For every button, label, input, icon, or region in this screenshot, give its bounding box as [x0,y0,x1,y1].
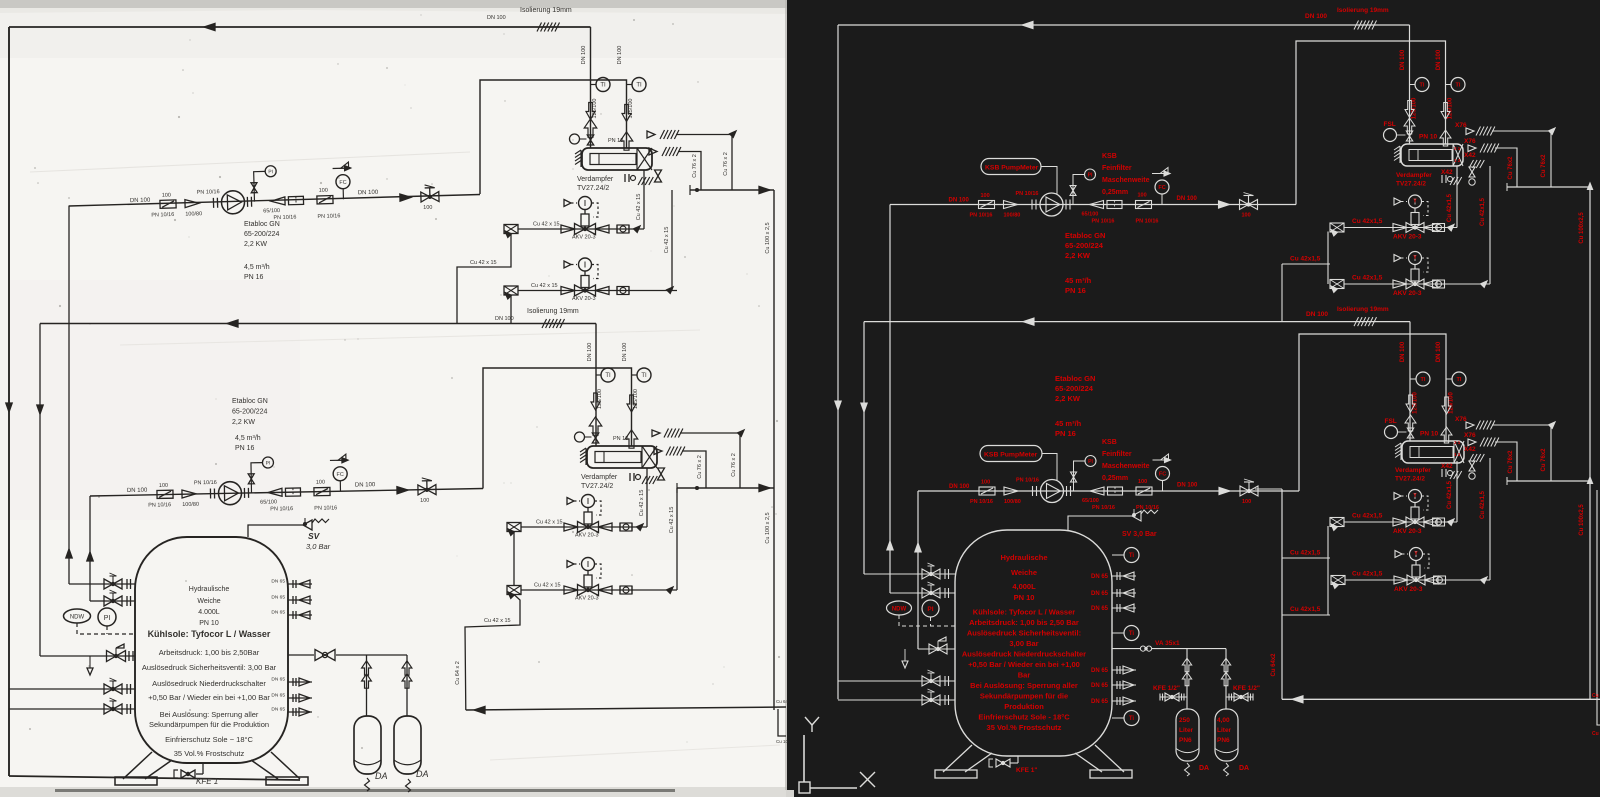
svg-text:Ti: Ti [1129,631,1135,637]
svg-text:Einfrierschutz Sole − 18°C: Einfrierschutz Sole − 18°C [165,735,253,744]
svg-text:45 m³/h: 45 m³/h [1055,419,1082,428]
svg-text:+0,50 Bar / Wieder ein bei +1,: +0,50 Bar / Wieder ein bei +1,00 Bar [148,693,270,702]
svg-text:100: 100 [1138,193,1147,199]
svg-text:Sekundärpumpen für die: Sekundärpumpen für die [980,692,1068,701]
svg-text:DA: DA [375,771,388,781]
svg-text:Cu 42 x 15: Cu 42 x 15 [531,283,558,289]
svg-text:0,25mm: 0,25mm [1102,475,1128,482]
svg-text:100/80: 100/80 [1004,499,1021,505]
svg-text:Verdampfer: Verdampfer [581,474,618,481]
svg-text:DN 100: DN 100 [355,482,376,488]
svg-text:4.000L: 4.000L [198,609,220,616]
svg-text:Ti: Ti [1129,553,1135,559]
svg-text:KFE 1": KFE 1" [196,777,222,786]
svg-text:100: 100 [319,188,328,194]
svg-text:X42: X42 [1441,463,1453,470]
svg-text:Cu 42x1,5: Cu 42x1,5 [1480,490,1486,519]
svg-text:Weiche: Weiche [197,598,220,605]
svg-text:Cu 76 x 2: Cu 76 x 2 [697,455,703,479]
svg-text:2,2 KW: 2,2 KW [232,419,255,426]
svg-text:DN 65: DN 65 [271,677,285,683]
svg-text:X76: X76 [1455,122,1467,129]
svg-text:TV27.24/2: TV27.24/2 [1396,181,1426,188]
svg-text:Cu 42 x 15: Cu 42 x 15 [639,490,645,517]
svg-text:Cu 42 x 15: Cu 42 x 15 [669,507,675,534]
svg-text:PN6: PN6 [1179,737,1192,744]
svg-text:DN 65: DN 65 [271,595,285,601]
svg-text:Bei Auslösung: Sperrung aller: Bei Auslösung: Sperrung aller [970,681,1078,690]
svg-text:35 Vol.% Frostschutz: 35 Vol.% Frostschutz [174,749,245,758]
svg-text:Cu 42 x 15: Cu 42 x 15 [484,618,511,624]
svg-text:Cu 76x2: Cu 76x2 [1541,154,1547,178]
svg-text:FSL: FSL [1384,121,1396,128]
svg-text:FC: FC [336,472,343,478]
svg-text:KSB PumpMeter: KSB PumpMeter [984,452,1038,459]
svg-text:AKV 20-3: AKV 20-3 [1394,586,1423,593]
svg-text:AKV 20-3: AKV 20-3 [572,235,596,241]
svg-text:PI: PI [104,615,111,622]
svg-text:Cu 42 x 15: Cu 42 x 15 [636,194,642,221]
svg-text:Cu 42 x 15: Cu 42 x 15 [534,583,561,589]
svg-text:Isolierung 19mm: Isolierung 19mm [1337,306,1389,313]
svg-text:PN 10/16: PN 10/16 [970,499,993,505]
svg-text:PI: PI [1088,459,1093,465]
svg-text:65/100: 65/100 [1082,498,1099,504]
svg-text:Cu 42 x 15: Cu 42 x 15 [533,222,560,228]
svg-text:125/100: 125/100 [1412,97,1418,119]
svg-text:DN 100: DN 100 [949,198,970,204]
svg-text:100: 100 [981,193,990,199]
svg-text:125/100: 125/100 [628,99,634,119]
svg-text:PN 10: PN 10 [1420,431,1438,438]
svg-text:Produktion: Produktion [1004,702,1044,711]
svg-text:Bar: Bar [1018,671,1031,680]
svg-text:Cu 100x2,5: Cu 100x2,5 [1579,504,1585,536]
svg-text:PN 10/16: PN 10/16 [970,213,993,219]
svg-text:TI: TI [605,373,611,379]
svg-text:KSB: KSB [1102,439,1117,446]
svg-text:Weiche: Weiche [1011,568,1037,577]
svg-text:+0,50 Bar / Wieder ein bei +1,: +0,50 Bar / Wieder ein bei +1,00 [968,660,1080,669]
svg-text:4,5 m³/h: 4,5 m³/h [244,264,270,271]
svg-text:NDW: NDW [892,607,907,613]
svg-text:AKV 20-3: AKV 20-3 [1393,528,1422,535]
svg-text:DA: DA [1239,765,1249,772]
svg-text:DN 100: DN 100 [1305,13,1327,20]
svg-text:PI: PI [266,460,271,466]
svg-text:Etabloc GN: Etabloc GN [244,221,280,228]
svg-text:DN 65: DN 65 [1091,606,1109,612]
svg-text:3,0 Bar: 3,0 Bar [306,542,331,551]
svg-text:TI: TI [1421,377,1426,383]
svg-text:Cu 100x2,5: Cu 100x2,5 [1579,212,1585,244]
svg-text:PN 10: PN 10 [1014,593,1035,602]
svg-text:2,2 KW: 2,2 KW [244,241,267,248]
svg-text:65-200/224: 65-200/224 [232,409,268,416]
svg-text:FC: FC [339,180,347,186]
svg-text:AKV 20-3: AKV 20-3 [1393,234,1422,241]
svg-text:PN 10/16: PN 10/16 [1092,219,1115,225]
svg-text:AKV 20-3: AKV 20-3 [575,596,599,602]
svg-text:AKV 20-3: AKV 20-3 [1393,290,1422,297]
svg-text:X42: X42 [1464,152,1476,159]
svg-text:DN 100: DN 100 [1177,196,1198,202]
svg-text:Etabloc GN: Etabloc GN [232,398,268,405]
svg-text:1 2: 1 2 [1454,452,1461,457]
svg-text:100: 100 [981,480,990,486]
svg-text:TI: TI [636,83,642,89]
svg-text:PN 10/16: PN 10/16 [270,506,293,512]
svg-text:Cu 42x1,5: Cu 42x1,5 [1447,480,1453,509]
svg-text:65/100: 65/100 [260,499,277,505]
svg-text:Cu 42x1,5: Cu 42x1,5 [1352,218,1383,225]
svg-text:2,2 KW: 2,2 KW [1055,394,1081,403]
svg-text:X42: X42 [1441,169,1453,176]
svg-text:Arbeitsdruck: 1,00 bis 2,50Bar: Arbeitsdruck: 1,00 bis 2,50Bar [159,648,260,657]
svg-text:Cu 76 x 2: Cu 76 x 2 [731,453,737,477]
svg-text:100/80: 100/80 [182,502,199,508]
svg-text:Kühlsole: Tyfocor L / Wasser: Kühlsole: Tyfocor L / Wasser [973,608,1075,617]
svg-text:FSL: FSL [1385,418,1397,425]
svg-text:TI: TI [1456,83,1461,89]
svg-text:Cu 76 x 2: Cu 76 x 2 [692,154,698,178]
svg-text:PN 10: PN 10 [1419,134,1437,141]
svg-text:Cu 42 x 15: Cu 42 x 15 [536,520,563,526]
svg-text:Y: Y [1413,493,1417,499]
svg-text:3,00 Bar: 3,00 Bar [1009,639,1038,648]
svg-text:Cu 76x2: Cu 76x2 [1508,156,1514,180]
svg-text:X76: X76 [1455,416,1467,423]
svg-text:100: 100 [316,480,325,486]
svg-text:Einfrierschutz Sole - 18°C: Einfrierschutz Sole - 18°C [978,713,1070,722]
svg-text:Cu 42x1,5: Cu 42x1,5 [1352,571,1383,578]
svg-text:SV 3,0 Bar: SV 3,0 Bar [1122,531,1157,538]
svg-text:DN 100: DN 100 [1177,483,1198,489]
svg-text:100: 100 [420,498,429,504]
svg-text:Cu 42x1,5: Cu 42x1,5 [1352,513,1383,520]
svg-text:PN 10/16: PN 10/16 [194,480,217,486]
svg-text:PI: PI [927,606,933,613]
svg-text:100: 100 [162,193,171,199]
svg-text:NDW: NDW [70,615,85,621]
svg-text:DN 65: DN 65 [1091,591,1109,597]
svg-text:100: 100 [423,205,432,211]
svg-text:DN 65: DN 65 [1091,683,1109,689]
svg-text:Etabloc GN: Etabloc GN [1055,374,1095,383]
svg-text:Cu: Cu [1592,693,1599,699]
svg-text:X76: X76 [1464,138,1476,145]
svg-text:PN 10/16: PN 10/16 [1136,505,1159,511]
svg-text:Y: Y [1414,551,1418,557]
svg-text:Cu 100 x 2,5: Cu 100 x 2,5 [765,222,771,253]
svg-text:PN 10/16: PN 10/16 [148,502,171,508]
svg-text:TI: TI [1457,377,1462,383]
svg-text:Verdampfer: Verdampfer [577,176,614,183]
svg-text:PN 10/16: PN 10/16 [317,213,340,220]
svg-text:Liter: Liter [1179,727,1194,734]
svg-text:2 1: 2 1 [1454,440,1461,445]
svg-text:65/100: 65/100 [1082,212,1099,218]
svg-text:Cu 100 x 2,5: Cu 100 x 2,5 [765,512,771,543]
svg-text:PN 10/16: PN 10/16 [1136,219,1159,225]
svg-text:Cu 10: Cu 10 [776,739,789,744]
svg-text:PN 10/16: PN 10/16 [151,212,174,219]
svg-text:Cu 64: Cu 64 [776,699,789,704]
svg-text:0,25mm: 0,25mm [1102,189,1128,196]
svg-text:65-200/224: 65-200/224 [244,231,280,238]
svg-text:125/100: 125/100 [1413,392,1419,414]
svg-text:PN 10: PN 10 [608,138,623,144]
svg-text:Cu 42 x 15: Cu 42 x 15 [470,260,497,266]
svg-text:TV27.24/2: TV27.24/2 [1395,476,1425,483]
svg-text:DA: DA [416,769,429,779]
svg-text:TV27.24/2: TV27.24/2 [581,483,613,490]
svg-text:PN 16: PN 16 [1065,286,1086,295]
svg-text:X76: X76 [1464,432,1476,439]
svg-text:Sekundärpumpen für die Produk: Sekundärpumpen für die Produktion [149,720,269,729]
svg-text:PN6: PN6 [1217,737,1230,744]
svg-text:DN 100: DN 100 [358,190,379,197]
svg-text:FC: FC [1159,472,1166,478]
svg-text:DN 65: DN 65 [271,579,285,585]
svg-text:100: 100 [1242,213,1251,219]
svg-text:2 1: 2 1 [1454,146,1461,151]
svg-text:Feinfilter: Feinfilter [1102,451,1132,458]
svg-text:2,2 KW: 2,2 KW [1065,251,1091,260]
svg-text:Verdampfer: Verdampfer [1396,172,1432,179]
svg-text:Ti: Ti [1129,716,1135,722]
svg-text:Hydraulische: Hydraulische [189,586,230,593]
svg-text:100: 100 [1242,499,1251,505]
svg-text:Cu 76x2: Cu 76x2 [1508,450,1514,474]
svg-text:Bei Auslösung: Sperrung aller: Bei Auslösung: Sperrung aller [160,710,259,719]
svg-text:4,00: 4,00 [1217,717,1230,724]
svg-text:DN 100: DN 100 [581,46,587,65]
svg-text:Cu 76x2: Cu 76x2 [1541,448,1547,472]
svg-text:DN 65: DN 65 [1091,668,1109,674]
svg-text:TI: TI [600,83,606,89]
svg-text:Verdampfer: Verdampfer [1395,467,1431,474]
svg-text:PI: PI [268,169,273,175]
svg-text:65-200/224: 65-200/224 [1065,241,1104,250]
svg-text:Cu 64 x 2: Cu 64 x 2 [455,661,461,685]
svg-text:Isolierung 19mm: Isolierung 19mm [527,308,579,315]
svg-text:Auslösedruck Sicherheitsventil: Auslösedruck Sicherheitsventil: [967,629,1081,638]
svg-text:DN 65: DN 65 [1091,574,1109,580]
svg-text:1 2: 1 2 [1454,158,1461,163]
svg-text:DN 65: DN 65 [271,693,285,699]
svg-text:DN 100: DN 100 [130,198,151,205]
svg-text:PN 10: PN 10 [199,620,219,627]
svg-text:Y: Y [1413,199,1417,205]
svg-text:DN 65: DN 65 [1091,699,1109,705]
svg-text:100: 100 [1138,479,1147,485]
svg-text:Isolierung 19mm: Isolierung 19mm [1337,7,1389,14]
svg-text:Cu 42x1,5: Cu 42x1,5 [1290,550,1321,557]
svg-text:DN 100: DN 100 [1436,49,1442,70]
svg-text:Cu 64x2: Cu 64x2 [1271,653,1277,677]
svg-text:PN 10/16: PN 10/16 [1092,505,1115,511]
svg-text:VA 35x1: VA 35x1 [1155,640,1180,647]
svg-text:DN 100: DN 100 [487,15,506,21]
svg-text:Cu 42 x 15: Cu 42 x 15 [664,227,670,254]
svg-text:TI: TI [1420,83,1425,89]
svg-text:DN 100: DN 100 [949,484,970,490]
svg-text:125/100: 125/100 [1449,392,1455,414]
svg-text:65/100: 65/100 [263,208,280,214]
svg-text:250: 250 [1179,717,1190,724]
svg-text:Maschenweite: Maschenweite [1102,463,1150,470]
svg-text:Liter: Liter [1217,727,1232,734]
svg-text:SV: SV [308,531,321,541]
svg-text:KFE 1": KFE 1" [1016,767,1038,774]
svg-text:Cu 42x1,5: Cu 42x1,5 [1447,193,1453,222]
svg-text:100: 100 [159,483,168,489]
svg-text:PI: PI [1088,173,1093,179]
svg-text:PN 16: PN 16 [235,445,255,452]
svg-text:DN 100: DN 100 [127,488,148,494]
svg-text:4,5 m³/h: 4,5 m³/h [235,435,261,442]
svg-text:KSB PumpMeter: KSB PumpMeter [985,165,1039,172]
svg-text:KFE 1/2": KFE 1/2" [1153,685,1180,692]
svg-text:DN 100: DN 100 [1306,311,1328,318]
svg-text:DN 100: DN 100 [1436,341,1442,362]
svg-text:PN 10/16: PN 10/16 [197,189,220,196]
svg-text:45 m³/h: 45 m³/h [1065,276,1092,285]
svg-text:PN 10/16: PN 10/16 [1016,478,1039,484]
svg-text:Cu: Cu [1592,731,1599,737]
svg-text:Kühlsole: Tyfocor L / Wasser: Kühlsole: Tyfocor L / Wasser [148,629,271,639]
svg-text:Arbeitsdruck: 1,00 bis 2,50 Ba: Arbeitsdruck: 1,00 bis 2,50 Bar [969,618,1079,627]
svg-text:X42: X42 [1464,446,1476,453]
svg-text:4,000L: 4,000L [1012,582,1036,591]
svg-text:Cu 42x1,5: Cu 42x1,5 [1290,256,1321,263]
svg-text:100/80: 100/80 [185,211,202,217]
svg-text:DN 100: DN 100 [617,46,623,65]
svg-text:PN 16: PN 16 [1055,429,1076,438]
svg-text:KFE 1/2": KFE 1/2" [1233,685,1260,692]
svg-text:AKV 20-3: AKV 20-3 [575,533,599,539]
svg-text:Y: Y [1413,255,1417,261]
svg-text:Etabloc GN: Etabloc GN [1065,231,1105,240]
svg-text:PN 10: PN 10 [613,436,628,442]
svg-text:Cu 76 x 2: Cu 76 x 2 [723,152,729,176]
svg-text:PN 16: PN 16 [244,274,264,281]
svg-text:35 Vol.% Frostschutz: 35 Vol.% Frostschutz [987,723,1062,732]
svg-text:DN 65: DN 65 [271,707,285,713]
svg-text:FC: FC [1158,185,1165,191]
svg-text:125/100: 125/100 [633,389,639,409]
svg-text:DN 65: DN 65 [271,610,285,616]
svg-text:Isolierung 19mm: Isolierung 19mm [520,7,572,14]
svg-text:AKV 20-3: AKV 20-3 [572,296,596,302]
svg-text:Auslösedruck Niederdruckschalt: Auslösedruck Niederdruckschalter [962,650,1086,659]
svg-text:TV27.24/2: TV27.24/2 [577,185,609,192]
svg-text:PN 10/16: PN 10/16 [1016,191,1039,197]
svg-text:125/100: 125/100 [1448,97,1454,119]
svg-text:DN 100: DN 100 [587,343,593,362]
svg-text:Cu 42x1,5: Cu 42x1,5 [1290,606,1321,613]
svg-text:Maschenweite: Maschenweite [1102,177,1150,184]
svg-text:Feinfilter: Feinfilter [1102,165,1132,172]
svg-text:Cu 42x1,5: Cu 42x1,5 [1480,197,1486,226]
svg-text:DN 100: DN 100 [622,343,628,362]
svg-text:65-200/224: 65-200/224 [1055,384,1094,393]
svg-text:100/80: 100/80 [1004,213,1021,219]
svg-text:DN 100: DN 100 [1400,341,1406,362]
svg-text:PN 10/16: PN 10/16 [314,505,337,511]
svg-text:Hydraulische: Hydraulische [1000,553,1047,562]
svg-text:DA: DA [1199,765,1209,772]
svg-text:Auslösedruck Sicherheitsventil: Auslösedruck Sicherheitsventil: 3,00 Bar [142,663,277,672]
svg-text:DN 100: DN 100 [1400,49,1406,70]
svg-text:Cu 42x1,5: Cu 42x1,5 [1352,275,1383,282]
svg-text:TI: TI [641,373,647,379]
svg-text:KSB: KSB [1102,153,1117,160]
svg-text:Auslösedruck Niederdruckschalt: Auslösedruck Niederdruckschalter [152,679,266,688]
